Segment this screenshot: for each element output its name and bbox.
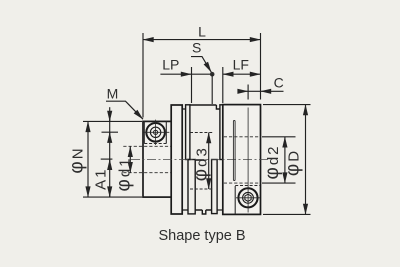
- svg-text:φD: φD: [283, 149, 304, 176]
- screw-axis extension line: [102, 131, 119, 133]
- screw centerline vertical (shared with dim C): [247, 108, 249, 213]
- axis extension segment for A1: [101, 158, 113, 160]
- dimension L: [143, 33, 261, 118]
- svg-text:C: C: [274, 75, 284, 91]
- center spacer edges: [190, 105, 220, 214]
- svg-text:A1: A1: [92, 168, 109, 190]
- groove floors around disc pack 1: [182, 109, 188, 210]
- dimension phi d3: [208, 133, 210, 190]
- right hub clamp slit: [233, 121, 235, 181]
- dimension phi D: [263, 105, 311, 215]
- disc pack 2 (top half band): [220, 105, 223, 160]
- right hub body (full diameter): [223, 105, 261, 215]
- dimension phi d2: [262, 137, 296, 183]
- flange (left, full diameter): [171, 105, 182, 214]
- svg-text:φN: φN: [67, 146, 88, 173]
- right hub screw recess: [234, 186, 236, 214]
- svg-text:φd2: φd2: [262, 144, 283, 179]
- clamp screw M (top left), socket head view: [146, 123, 165, 142]
- svg-text:S: S: [192, 40, 201, 56]
- axis centerline: [131, 159, 271, 161]
- left hub bore lines (for phi d1): [123, 145, 171, 147]
- groove floor right of disc pack 2: [217, 209, 223, 211]
- dimension C: [238, 85, 284, 100]
- left hub recess bottom (hidden line): [144, 143, 166, 145]
- disc pack 1 (bottom half band): [188, 160, 195, 214]
- clamp screw (bottom right), socket head view: [238, 188, 257, 207]
- svg-text:L: L: [198, 24, 206, 40]
- right hub bore lines (for phi d2): [224, 136, 261, 138]
- stacked dimension line (screw offset + A1): [109, 107, 111, 197]
- dimension phi N: [83, 121, 142, 197]
- svg-text:LF: LF: [233, 57, 249, 73]
- spacer hidden bore lines (for phi d3): [190, 132, 214, 134]
- svg-text:Shape type B: Shape type B: [158, 228, 245, 244]
- svg-text:φd1: φd1: [114, 156, 135, 191]
- node dot (S reference point): [210, 72, 215, 77]
- disc pack 2 (bottom half band): [212, 160, 218, 214]
- svg-text:M: M: [107, 86, 119, 102]
- disc pack 1 (top half band): [186, 105, 190, 160]
- svg-text:LP: LP: [162, 57, 179, 73]
- dimension phi d1: [129, 146, 131, 172]
- screw M crosshair: [144, 120, 170, 145]
- dimension LF: [223, 67, 261, 103]
- dimension LP: [160, 67, 212, 103]
- left hub body: [143, 121, 172, 197]
- svg-text:φd3: φd3: [191, 146, 212, 181]
- left hub screw recess box: [144, 121, 166, 143]
